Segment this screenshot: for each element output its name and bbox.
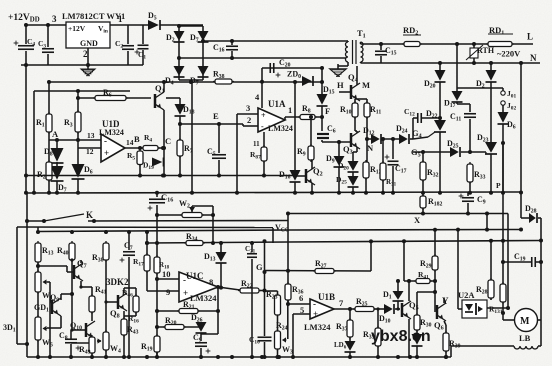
svg-text:2: 2 <box>247 115 251 125</box>
svg-text:C: C <box>165 136 171 146</box>
svg-text:F: F <box>325 106 330 116</box>
svg-text:+: + <box>183 288 188 298</box>
svg-text:3DK2: 3DK2 <box>106 277 129 287</box>
svg-text:P: P <box>496 181 501 190</box>
svg-text:E: E <box>213 111 219 121</box>
svg-text:Y: Y <box>442 296 449 306</box>
svg-text:10: 10 <box>162 269 171 279</box>
svg-text:U1C: U1C <box>186 271 204 281</box>
svg-text:~220V: ~220V <box>497 49 521 59</box>
svg-text:+: + <box>261 111 266 120</box>
svg-text:LM7812CT WY1: LM7812CT WY1 <box>62 11 125 21</box>
svg-text:X: X <box>414 215 421 225</box>
svg-text:5: 5 <box>300 305 304 315</box>
svg-text:U1A: U1A <box>268 99 286 109</box>
svg-text:14: 14 <box>126 138 134 147</box>
svg-text:8: 8 <box>209 277 213 287</box>
svg-text:LM324: LM324 <box>99 128 124 137</box>
svg-text:LB: LB <box>519 333 531 343</box>
svg-text:N: N <box>367 143 374 153</box>
svg-text:1: 1 <box>118 14 123 24</box>
svg-text:U1B: U1B <box>318 292 335 302</box>
svg-text:GND: GND <box>80 39 98 48</box>
svg-text:-: - <box>313 299 316 309</box>
svg-text:U2A: U2A <box>458 290 475 300</box>
svg-text:ybx8.cn: ybx8.cn <box>371 328 431 345</box>
svg-text:H: H <box>337 80 344 90</box>
svg-text:N: N <box>530 53 537 63</box>
svg-text:K: K <box>86 210 93 220</box>
svg-text:11: 11 <box>253 140 260 148</box>
svg-text:LM324: LM324 <box>190 293 217 303</box>
svg-text:3: 3 <box>52 14 57 24</box>
svg-text:13: 13 <box>87 131 95 140</box>
svg-text:+12V: +12V <box>68 24 86 33</box>
svg-text:B: B <box>134 134 140 144</box>
svg-text:9: 9 <box>166 287 170 297</box>
svg-text:-: - <box>104 136 107 146</box>
svg-text:6: 6 <box>299 293 303 303</box>
svg-text:L: L <box>527 32 533 42</box>
svg-text:2: 2 <box>83 49 88 59</box>
svg-text:G: G <box>256 262 263 272</box>
svg-text:+: + <box>104 148 109 158</box>
svg-text:RTH: RTH <box>477 46 495 55</box>
svg-text:1: 1 <box>288 105 292 115</box>
svg-text:LM324: LM324 <box>304 322 331 332</box>
svg-text:+: + <box>313 309 318 319</box>
svg-text:A: A <box>52 129 59 139</box>
svg-text:3: 3 <box>246 103 250 113</box>
svg-text:M: M <box>362 80 370 90</box>
svg-text:12: 12 <box>86 147 94 156</box>
svg-text:LM324: LM324 <box>268 124 293 133</box>
svg-text:-: - <box>183 275 186 285</box>
svg-text:-: - <box>261 122 264 131</box>
svg-text:M: M <box>520 316 530 327</box>
